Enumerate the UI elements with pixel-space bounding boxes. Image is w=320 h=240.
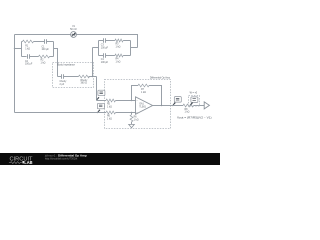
svg-text:W = +0: W = +0 <box>190 93 198 95</box>
wire right block down to body output <box>92 48 94 77</box>
output port <box>204 102 209 109</box>
capacitor C4 <box>104 53 106 58</box>
node probe2 junction <box>97 112 98 113</box>
body impedance dashed box <box>53 63 94 88</box>
node rail stub junction <box>14 48 15 49</box>
logo cursor <box>22 161 24 163</box>
svg-text:1 kΩ: 1 kΩ <box>116 46 121 48</box>
svg-text:Body Impedance: Body Impedance <box>58 64 76 66</box>
svg-text:1 kΩ: 1 kΩ <box>116 61 121 63</box>
svg-text:OA1: OA1 <box>139 103 144 106</box>
capacitor C2 <box>28 54 30 59</box>
wire body output down to probe1 <box>96 77 98 101</box>
wire op amp output <box>153 105 173 107</box>
wire op amp plus input <box>97 112 135 114</box>
svg-text:100 µF: 100 µF <box>101 48 109 50</box>
capacitor C5 body <box>62 74 64 79</box>
capacitor C3 <box>104 38 106 43</box>
svg-text:1 kΩ: 1 kΩ <box>134 119 139 121</box>
svg-text:Differential Op Amp: Differential Op Amp <box>150 76 171 79</box>
wire ground leg <box>131 113 133 125</box>
footer bar <box>0 153 220 165</box>
resistor R9 <box>130 115 133 122</box>
wire top right V1 to right block <box>76 35 137 48</box>
wire feedback left <box>132 86 139 101</box>
wire left block right node <box>53 42 55 57</box>
resistor R6 input <box>106 111 116 114</box>
wire left block bottom branch <box>22 56 54 58</box>
op-amp OA1 <box>136 97 153 115</box>
wire left block to body box <box>54 49 58 77</box>
wire feedback right <box>149 86 162 106</box>
svg-text:50 mV: 50 mV <box>70 29 77 31</box>
svg-text:Rbody: Rbody <box>81 80 89 82</box>
svg-text:2 µF: 2 µF <box>60 84 65 86</box>
resistor R4 <box>115 54 123 57</box>
probe flag 1 <box>97 90 105 100</box>
svg-text:LAB: LAB <box>24 160 33 165</box>
logo resistor zigzag <box>9 162 22 164</box>
resistor R1 <box>23 40 34 43</box>
wire output to load <box>173 105 204 107</box>
wire op amp minus input <box>97 100 136 102</box>
voltage source V1 <box>71 32 77 38</box>
node output feedback junction <box>161 105 162 106</box>
svg-text:100 µF: 100 µF <box>42 49 50 51</box>
svg-text:100 µF: 100 µF <box>101 62 109 64</box>
probe flag 3 <box>173 97 182 106</box>
wire bottom rail to probe2 <box>15 112 98 114</box>
svg-text:1 kΩ: 1 kΩ <box>107 106 112 108</box>
resistor R8 body <box>79 75 90 78</box>
svg-text:1 kΩ: 1 kΩ <box>141 92 146 94</box>
wire right block left node <box>93 41 99 56</box>
resistor R7 feedback <box>138 84 149 87</box>
wire top left V1 to left rail <box>15 34 71 36</box>
svg-text:380 Ω: 380 Ω <box>81 83 88 85</box>
node plus ground leg junction <box>131 112 132 113</box>
node probe4 junction <box>189 105 190 106</box>
resistor R10 load <box>183 104 194 107</box>
selection dashed box <box>189 96 200 107</box>
ground <box>129 124 135 127</box>
node probe3 junction <box>172 105 173 106</box>
svg-text:Vout = (R7/R5)(V2 − V1): Vout = (R7/R5)(V2 − V1) <box>177 117 212 120</box>
svg-text:1 kΩ: 1 kΩ <box>25 49 30 51</box>
svg-text:Cbody: Cbody <box>60 81 68 83</box>
wire right block bottom branch <box>99 55 131 57</box>
svg-text:1 kΩ: 1 kΩ <box>107 118 112 120</box>
node minus feedback junction <box>131 100 132 101</box>
node body output junction <box>92 76 93 77</box>
differential op amp dashed box <box>105 80 171 129</box>
resistor R5 input <box>106 99 116 102</box>
wire right block top branch <box>99 40 131 42</box>
probe flag 2 <box>97 103 104 112</box>
wire left block top branch <box>22 41 54 43</box>
svg-text:TL081: TL081 <box>139 107 146 109</box>
svg-text:1 kΩ: 1 kΩ <box>185 112 190 114</box>
svg-text:100 µF: 100 µF <box>25 64 33 66</box>
wire left block left node <box>15 42 22 57</box>
resistor R3 <box>115 39 123 42</box>
wire right block right node <box>131 41 138 56</box>
capacitor C1 <box>45 39 47 44</box>
wire left rail <box>14 35 16 113</box>
svg-text:http://circuitlab.com/c/7302tk: http://circuitlab.com/c/7302tk <box>45 156 78 160</box>
probe flag 4 <box>190 97 198 105</box>
resistor R2 <box>39 55 50 58</box>
svg-text:1 kΩ: 1 kΩ <box>41 63 46 65</box>
wire body internal <box>58 76 97 78</box>
